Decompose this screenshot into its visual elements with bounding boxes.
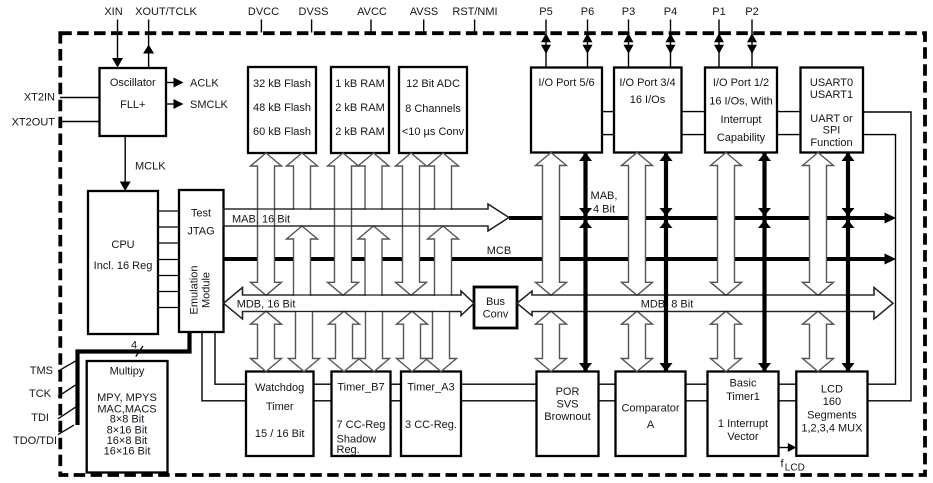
bus arrow memory-MDB col x=343 [328, 153, 359, 295]
svg-text:USART1: USART1 [810, 89, 853, 101]
svg-text:MAB,: MAB, [591, 190, 618, 202]
wire pin P3 to I/O port [628, 20, 630, 68]
bus arrow MDB-MAB col x=443 [428, 226, 459, 296]
svg-text:I/O Port 5/6: I/O Port 5/6 [538, 77, 594, 89]
bus width slash [136, 346, 143, 357]
wire pin P6 to I/O port [587, 20, 589, 68]
Timer_A3 block [401, 372, 461, 457]
svg-text:XIN: XIN [104, 6, 122, 18]
svg-text:Module: Module [201, 272, 213, 308]
svg-text:32 kB Flash: 32 kB Flash [253, 78, 311, 90]
svg-text:DVCC: DVCC [248, 6, 279, 18]
svg-text:Timer1: Timer1 [726, 391, 760, 403]
svg-text:MDB, 16 Bit: MDB, 16 Bit [237, 298, 296, 310]
oscillator FLL+ block [100, 68, 167, 136]
bus arrow MDB-peripheral down col x=304 [289, 311, 320, 372]
svg-text:TDI: TDI [31, 412, 49, 424]
svg-text:P2: P2 [745, 6, 758, 18]
LCD driver block [796, 372, 867, 456]
bus arrow port-MDB8 col x=637 [622, 153, 653, 296]
svg-text:160: 160 [823, 396, 841, 408]
wire XT2IN [60, 97, 100, 99]
svg-text:P5: P5 [539, 6, 552, 18]
svg-text:ACLK: ACLK [190, 78, 219, 90]
I/O Port 1/2 block [705, 68, 777, 153]
wire chain I/O ports upper [602, 111, 614, 113]
svg-text:POR: POR [556, 386, 580, 398]
wire pin P1 to I/O port [718, 20, 720, 68]
svg-text:48 kB Flash: 48 kB Flash [253, 102, 311, 114]
svg-text:Bus: Bus [486, 296, 505, 308]
svg-text:P6: P6 [581, 6, 594, 18]
POR/SVS block [537, 372, 599, 457]
svg-text:4 Bit: 4 Bit [593, 204, 615, 216]
bus arrow port-MDB8 col x=551 [536, 153, 567, 296]
bus MCB thick line [224, 257, 886, 261]
svg-text:I/O Port 1/2: I/O Port 1/2 [713, 77, 769, 89]
wire XIN to oscillator [117, 20, 119, 67]
wire pin P5 to I/O port [545, 20, 547, 68]
svg-text:UART or: UART or [810, 113, 853, 125]
svg-text:P4: P4 [664, 6, 677, 18]
wire SMCLK [166, 103, 174, 105]
svg-text:4: 4 [131, 340, 137, 352]
svg-text:SPI: SPI [823, 125, 841, 137]
Emulation module text [189, 266, 213, 315]
bus arrow MAB-memory col x=302 [287, 153, 318, 210]
tick TCK [58, 384, 77, 397]
svg-text:Function: Function [810, 137, 852, 149]
svg-text:LCD: LCD [821, 384, 843, 396]
thick bus line col x=764.5 [762, 153, 766, 372]
pin stub AVCC [370, 20, 372, 33]
bus arrow port-MDB8 col x=726 [711, 153, 742, 296]
Comparator_A block [616, 372, 686, 457]
svg-text:1,2,3,4 MUX: 1,2,3,4 MUX [801, 423, 863, 435]
bus MAB 4-bit thick line [509, 216, 886, 220]
wire XOUT/TCLK from oscillator [148, 20, 150, 69]
wire pin P4 to I/O port [670, 20, 672, 68]
bus arrow memory-MDB col x=411 [396, 153, 427, 295]
svg-text:16 I/Os, With: 16 I/Os, With [709, 96, 773, 108]
bus arrow MDB8-peripheral col x=551 [536, 311, 567, 371]
svg-text:Multipy: Multipy [110, 366, 145, 378]
wire MCLK [124, 136, 126, 182]
svg-text:SMCLK: SMCLK [190, 99, 229, 111]
ADC block [399, 67, 467, 153]
Test JTAG / Emulation block [179, 190, 224, 332]
bus arrow MAB-memory col x=373.5 [358, 153, 389, 210]
svg-text:DVSS: DVSS [299, 6, 329, 18]
svg-text:Segments: Segments [807, 410, 857, 422]
svg-text:<10 µs Conv: <10 µs Conv [402, 126, 465, 138]
svg-text:Timer: Timer [266, 401, 294, 413]
svg-text:USART0: USART0 [810, 77, 853, 89]
pin stub AVSS [423, 20, 425, 33]
bus arrow MDB8-peripheral col x=637 [622, 311, 653, 371]
svg-text:FLL+: FLL+ [120, 99, 145, 111]
Bus Conv block [474, 287, 517, 328]
svg-text:12 Bit ADC: 12 Bit ADC [406, 78, 460, 90]
bus MAB 16-bit band with right arrowhead [224, 204, 510, 231]
wire pin P2 to I/O port [751, 20, 753, 68]
svg-text:MCB: MCB [487, 245, 511, 257]
svg-text:RST/NMI: RST/NMI [452, 6, 497, 18]
svg-text:XOUT/TCLK: XOUT/TCLK [135, 6, 197, 18]
svg-text:60 kB Flash: 60 kB Flash [253, 126, 311, 138]
bus MDB 8-bit band double arrow [517, 288, 893, 320]
svg-text:3 CC-Reg.: 3 CC-Reg. [405, 419, 457, 431]
bus arrow memory-MDB col x=266 [251, 153, 282, 295]
JTAG 4-wire bus [78, 332, 190, 425]
wire USART to right lower [863, 135, 896, 385]
svg-text:16 I/Os: 16 I/Os [630, 94, 666, 106]
svg-text:TCK: TCK [29, 388, 52, 400]
svg-text:15 / 16 Bit: 15 / 16 Bit [255, 428, 305, 440]
watchdog timer block [246, 372, 314, 457]
wire emulation to watchdog lower [202, 332, 246, 401]
svg-text:Watchdog: Watchdog [255, 382, 304, 394]
bus arrow MDB8-peripheral col x=726 [711, 311, 742, 371]
svg-text:2 kB RAM: 2 kB RAM [335, 102, 385, 114]
svg-text:Timer_A3: Timer_A3 [407, 382, 454, 394]
wire emulation to watchdog upper [215, 332, 246, 384]
bus arrow MDB-peripheral down col x=374 [359, 311, 390, 372]
svg-text:Capability: Capability [717, 132, 766, 144]
pin stub RST/NMI [474, 20, 476, 33]
tick TDO/TDI [58, 425, 74, 435]
bus arrow MDB-MAB col x=373.5 [358, 226, 389, 296]
svg-text:JTAG: JTAG [187, 226, 214, 238]
bus arrow MDB-MAB col x=302 [287, 226, 318, 296]
flash memory block [248, 67, 316, 153]
svg-text:Reg.: Reg. [337, 444, 360, 456]
wire chain peripherals upper [314, 383, 332, 385]
svg-text:SVS: SVS [556, 399, 578, 411]
svg-text:P1: P1 [712, 6, 725, 18]
svg-text:MCLK: MCLK [135, 161, 166, 173]
svg-text:1 kB RAM: 1 kB RAM [335, 78, 385, 90]
svg-text:Basic: Basic [730, 378, 757, 390]
svg-text:AVSS: AVSS [410, 6, 439, 18]
svg-text:TDO/TDI: TDO/TDI [13, 435, 57, 447]
wire USART to right upper [863, 112, 911, 401]
thick bus line col x=666 [664, 153, 668, 372]
CPU block [88, 191, 158, 334]
thick bus line col x=585.5 [583, 153, 587, 372]
I/O Port 5/6 block [531, 68, 602, 153]
svg-text:LCD: LCD [785, 463, 805, 474]
wire chain I/O ports lower [602, 134, 614, 136]
svg-text:Brownout: Brownout [544, 411, 590, 423]
multiplier block [87, 361, 168, 473]
svg-text:Incl. 16 Reg: Incl. 16 Reg [94, 260, 153, 272]
svg-text:Oscillator: Oscillator [110, 77, 156, 89]
tick TMS [58, 360, 77, 371]
svg-text:A: A [647, 419, 655, 431]
svg-text:AVCC: AVCC [357, 6, 387, 18]
tick TDI [58, 406, 77, 419]
svg-text:XT2OUT: XT2OUT [12, 116, 56, 128]
bus MDB 16-bit band double arrow [224, 288, 475, 320]
Timer_B7 block [332, 372, 391, 457]
bus arrow MDB-peripheral down col x=441 [426, 311, 457, 372]
bus MDB 16-bit band outline overlay [224, 288, 475, 320]
bus arrow port-MDB8 col x=818 [803, 153, 834, 296]
svg-text:Vector: Vector [727, 431, 759, 443]
wire XT2OUT [60, 121, 100, 123]
svg-text:MAB, 16 Bit: MAB, 16 Bit [232, 214, 290, 226]
svg-text:MPY, MPYS: MPY, MPYS [97, 392, 157, 404]
svg-text:Interrupt: Interrupt [721, 114, 762, 126]
svg-text:2 kB RAM: 2 kB RAM [335, 126, 385, 138]
svg-text:XT2IN: XT2IN [24, 92, 55, 104]
svg-text:Comparator: Comparator [621, 403, 679, 415]
pin stub DVCC [260, 20, 262, 33]
svg-text:Test: Test [191, 208, 211, 220]
svg-text:CPU: CPU [111, 239, 134, 251]
svg-text:7 CC-Reg: 7 CC-Reg [337, 419, 386, 431]
thick bus line col x=848 [846, 153, 850, 372]
RAM block [331, 67, 389, 153]
svg-text:1 Interrupt: 1 Interrupt [718, 418, 768, 430]
CPU to JTAG hatch wires [158, 210, 179, 212]
USART block [801, 68, 864, 153]
wire ACLK [166, 82, 174, 84]
bus MAB 16-bit band outline overlay [224, 204, 510, 231]
svg-text:Emulation: Emulation [189, 266, 201, 315]
pin stub DVSS [311, 20, 313, 33]
svg-text:P3: P3 [622, 6, 635, 18]
svg-text:16×16 Bit: 16×16 Bit [104, 445, 151, 457]
wire fLCD [779, 447, 790, 449]
wire chain peripherals lower [314, 400, 332, 402]
bus arrow MDB-peripheral col x=344 [329, 311, 360, 371]
svg-text:8 Channels: 8 Channels [405, 103, 461, 115]
bus arrow MDB8-peripheral col x=818 [803, 311, 834, 371]
Basic Timer1 block [708, 372, 779, 457]
I/O Port 3/4 block [614, 68, 682, 153]
svg-text:TMS: TMS [30, 365, 53, 377]
bus MDB 8-bit band outline overlay [517, 288, 893, 320]
svg-text:I/O Port 3/4: I/O Port 3/4 [619, 77, 675, 89]
svg-text:Conv: Conv [483, 308, 509, 320]
bus arrow MAB-memory col x=443 [428, 153, 459, 210]
svg-text:Timer_B7: Timer_B7 [337, 382, 384, 394]
svg-text:MDB, 8 Bit: MDB, 8 Bit [641, 298, 694, 310]
bus arrow MDB-peripheral col x=412 [397, 311, 428, 371]
bus arrow MDB-peripheral col x=266 [251, 311, 282, 371]
